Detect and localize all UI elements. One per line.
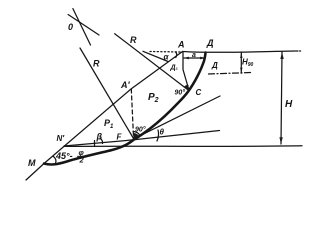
svg-text:R: R [130,35,137,45]
dashed vertical A'-F [131,89,133,137]
angle arc alpha at A [176,52,177,58]
top surface line [183,51,296,52]
svg-text:R: R [93,59,100,69]
a arrow right [200,57,205,60]
angle arc theta [157,130,159,141]
line from R2 to slope face [143,51,168,61]
vertical from A and diagonal to C [183,52,189,89]
H arrow top [280,52,284,59]
svg-text:0: 0 [68,22,73,32]
svg-text:β: β [96,132,103,142]
node O construction line 1 [73,9,91,45]
radius R2 to C [115,34,188,90]
top surface short dash right [296,50,298,52]
svg-text:Д₁: Д₁ [170,65,179,72]
H90 dimension line [240,52,242,73]
fraction bar phi/2 [77,155,86,157]
angle arc 90 at F outline [133,132,139,135]
90 deg filled wedge at C [184,85,189,90]
svg-text:A′: A′ [120,80,130,90]
slope face line M-A [26,52,183,181]
H90 arrow bottom [240,68,242,73]
svg-text:θ: θ [160,128,165,137]
svg-text:90°: 90° [135,126,146,134]
svg-text:Д: Д [206,38,214,48]
angle arc beta tick [94,141,96,147]
svg-text:Д: Д [211,61,218,70]
H arrow bottom [279,137,282,144]
svg-text:90°: 90° [175,89,186,97]
svg-text:a: a [192,52,196,59]
radius R1 to F [80,48,134,139]
dash-dot line at H90 level [209,73,252,75]
line N-F-theta [64,131,220,147]
node O construction line 2 [68,15,99,36]
H90 arrow top [240,53,242,59]
angle arc 45-phi/2 at M [54,157,56,164]
svg-text:C: C [196,88,202,97]
svg-text:45°-: 45°- [55,151,73,161]
ground line [64,145,302,148]
H dimension line [281,52,282,144]
angle arc beta [100,138,103,144]
svg-text:N′: N′ [57,134,66,143]
svg-text:A: A [177,40,185,50]
a dimension line [184,57,205,59]
a arrow left [184,57,189,60]
svg-text:2: 2 [79,156,85,165]
svg-text:H: H [285,99,293,110]
svg-text:M: M [28,158,36,168]
thick slip curve M-F-C-B [44,53,206,165]
thin line F up-right [135,96,221,139]
90 deg filled wedge at F [133,52,284,144]
dotted extension left of A [150,51,181,54]
